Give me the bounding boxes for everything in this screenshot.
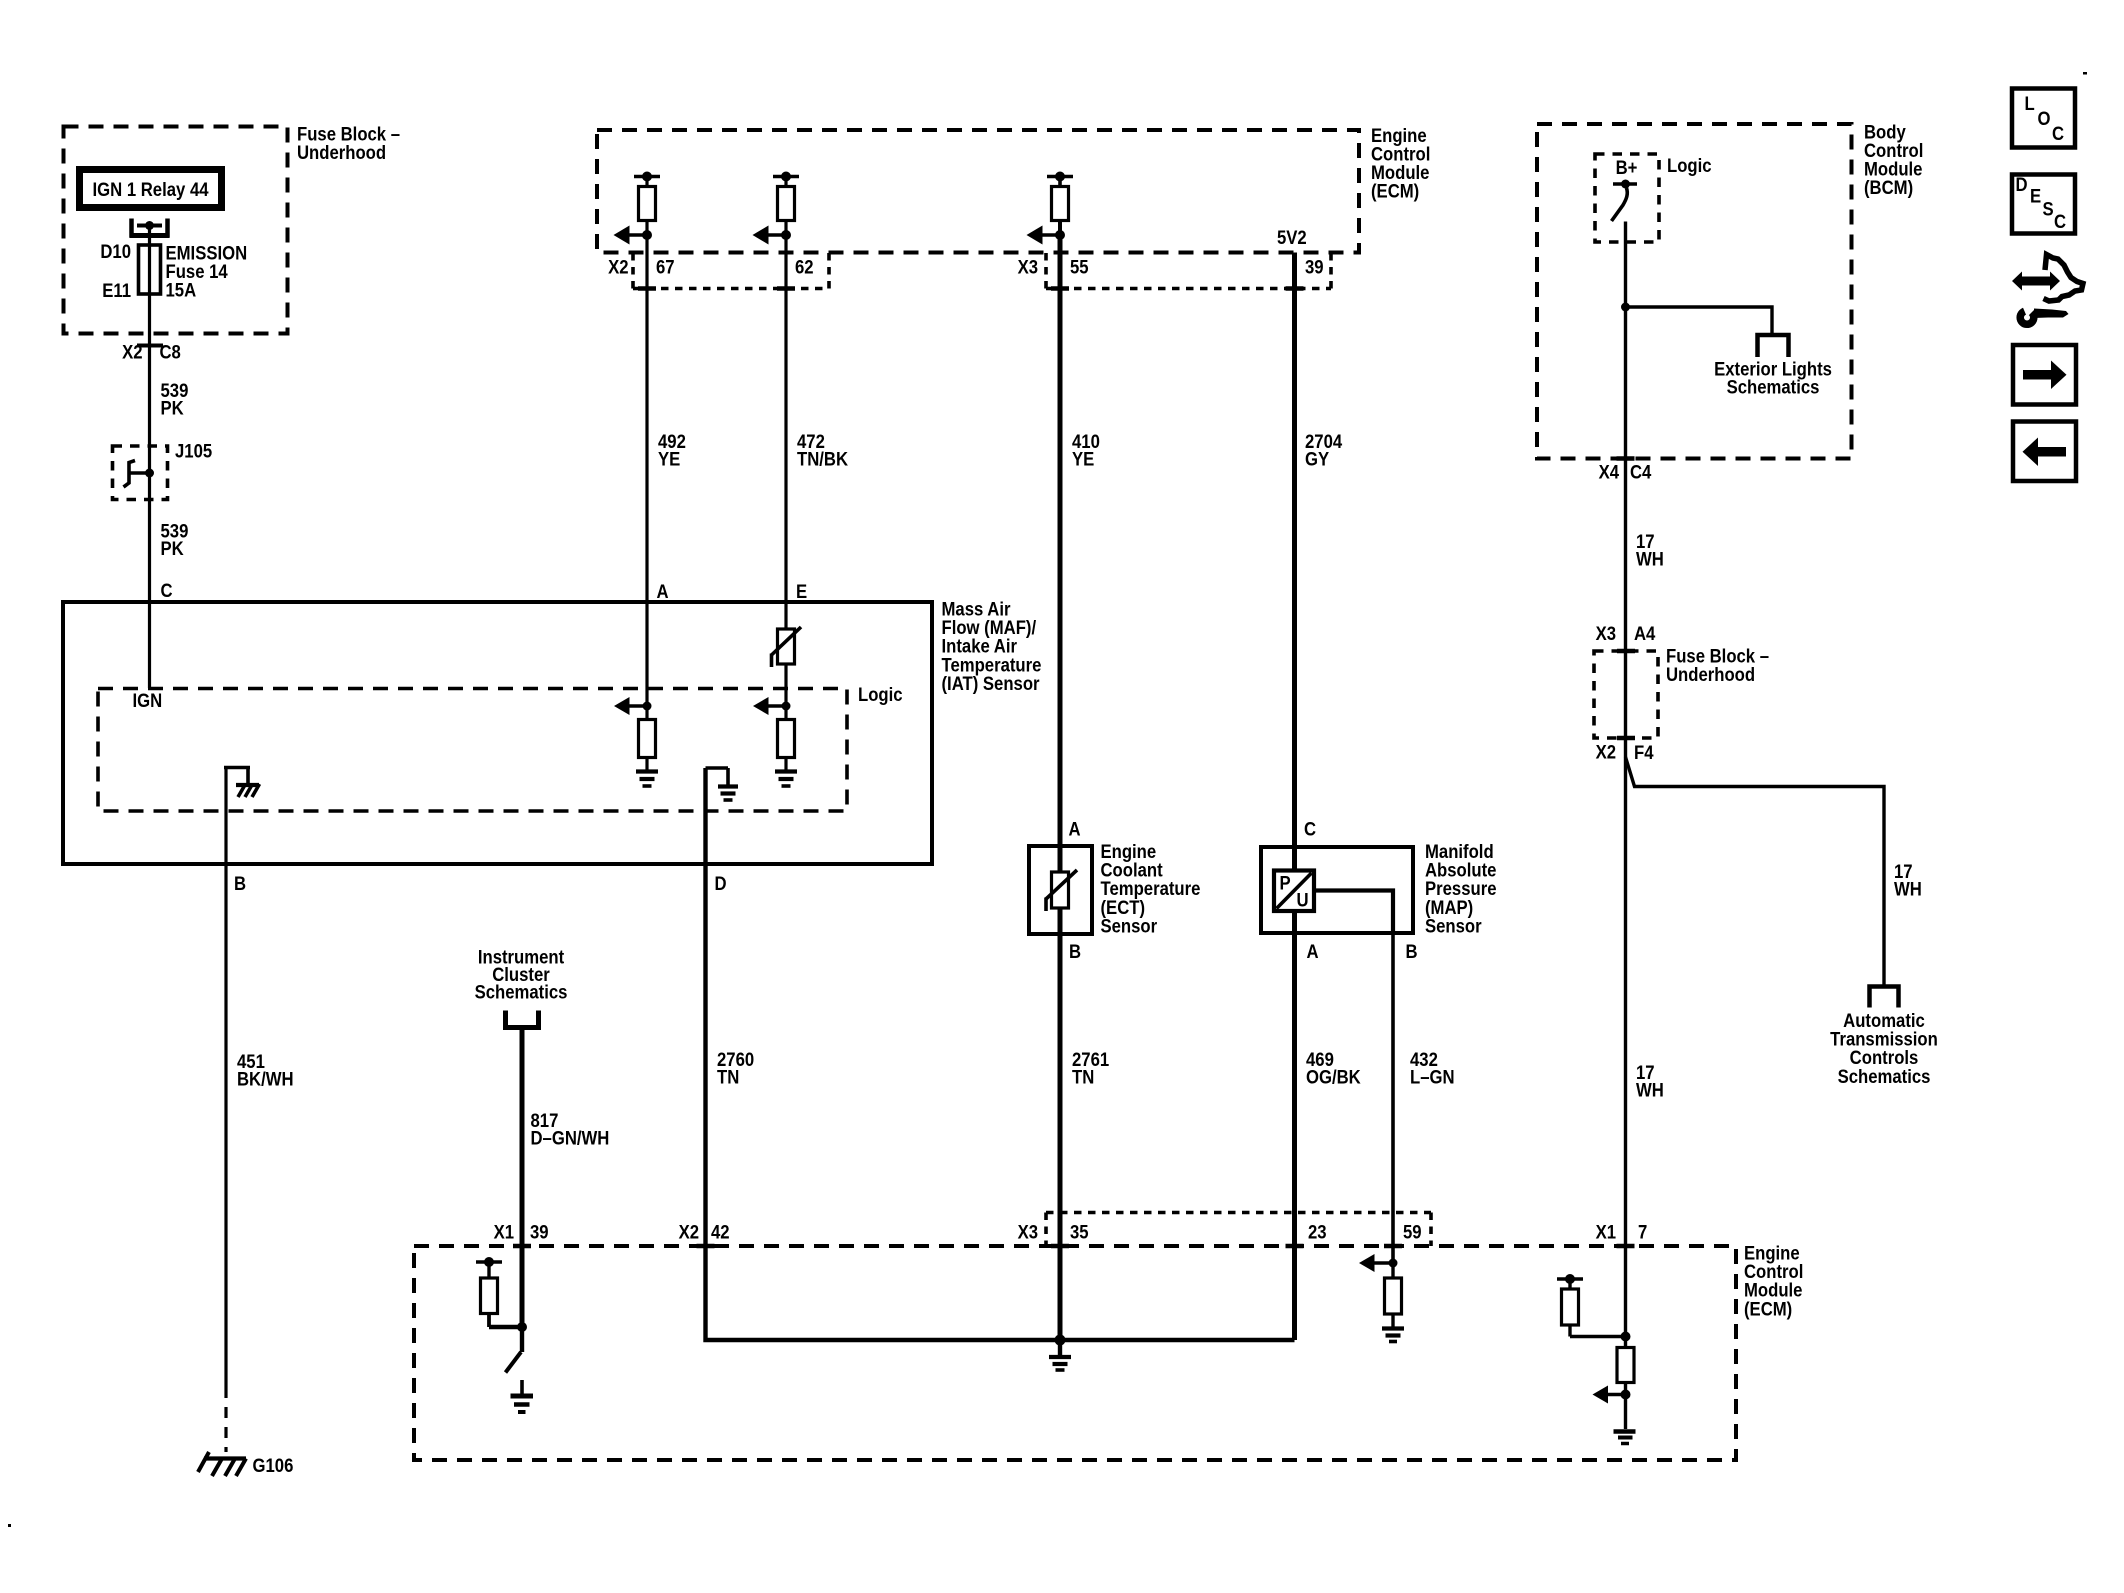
svg-text:E11: E11 — [102, 280, 131, 301]
wire 451 BK/WH solid part — [224, 768, 227, 1388]
sidebar icon vehicle/wrench — [2012, 255, 2083, 325]
label pin 39 — [1305, 257, 1324, 278]
svg-text:U: U — [1297, 890, 1309, 911]
svg-text:39: 39 — [1305, 257, 1324, 278]
label 817 D-GN/WH — [531, 1110, 610, 1149]
wire 451 BK/WH dashed tail — [224, 1387, 227, 1452]
svg-text:A4: A4 — [1634, 623, 1655, 644]
connector X3 dotted box (pins 55 39) — [1046, 253, 1331, 289]
connector ticks on wires (bottom row) — [513, 1244, 1635, 1249]
connector X2 dotted box (pins 67 62) — [633, 253, 829, 289]
label 539 PK (upper) — [161, 380, 189, 419]
label 17 WH (lower) — [1636, 1062, 1664, 1101]
label 2761 TN — [1072, 1049, 1109, 1088]
MAP P/U transducer square — [1274, 871, 1314, 912]
splice J105 dashed box — [113, 446, 168, 500]
label X2 (C8 row) — [122, 342, 142, 363]
label pin B (MAP) — [1406, 941, 1418, 962]
MAF internal Logic dashed box — [98, 689, 847, 812]
label Mass Air Flow (MAF)/ Intake Air Temperature (IAT) Sensor — [942, 599, 1042, 695]
ECM output arrow at pin 67 — [614, 226, 653, 245]
MAF logic pull-down resistor at E — [778, 720, 795, 771]
tick at fuse box top — [1617, 649, 1635, 654]
fuse block underhood (right) small dashed box — [1594, 651, 1658, 738]
forward arrow — [2023, 361, 2067, 390]
svg-text:67: 67 — [656, 257, 675, 278]
svg-text:B+: B+ — [1616, 157, 1638, 178]
svg-text:C: C — [1304, 819, 1316, 840]
label pin 62 — [795, 257, 814, 278]
wire 817 D-GN/WH — [520, 1028, 525, 1328]
svg-text:C8: C8 — [160, 342, 181, 363]
label IGN — [133, 690, 163, 711]
label 410 YE — [1072, 431, 1100, 470]
wire 17 WH main vertical (BCM to ECM X1-7) — [1624, 222, 1627, 1430]
wire branch to automatic transmission (17 WH) — [1626, 757, 1885, 987]
label pin A (MAF) — [657, 581, 669, 602]
label X2 (top connector) — [608, 257, 628, 278]
ground (A branch) — [636, 772, 658, 787]
ECM internal series resistor at pin 7 — [1617, 1348, 1634, 1383]
label pin 35 — [1070, 1222, 1089, 1243]
wire relay to fuse to MAF pin C (539 PK) — [148, 226, 151, 689]
svg-text:E: E — [796, 581, 807, 602]
svg-text:L: L — [2025, 93, 2035, 114]
fuse block underhood (top-left) dashed box — [64, 127, 288, 334]
svg-text:A: A — [1307, 941, 1319, 962]
ECM output arrow below pin 7 resistor — [1593, 1386, 1631, 1404]
svg-text:S: S — [2043, 199, 2054, 220]
svg-text:C: C — [161, 580, 173, 601]
label Fuse Block - Underhood — [297, 124, 400, 164]
label L O C — [2025, 93, 2065, 144]
tick at fuse box bottom — [1617, 736, 1635, 741]
ECM (bottom) dashed box — [414, 1246, 1736, 1460]
label pin B (ECT) — [1069, 941, 1081, 962]
label pin 39 (bottom) — [530, 1222, 549, 1243]
label Body Control Module (BCM) — [1864, 121, 1923, 198]
wire E inside MAF (thermistor to logic) — [784, 664, 787, 720]
junction dot 817/resistor — [517, 1322, 527, 1332]
label pin C (MAP) — [1304, 819, 1316, 840]
svg-text:G106: G106 — [253, 1455, 294, 1476]
label 472 TN/BK — [797, 431, 848, 470]
ECM internal resistor at pin 55 — [1047, 172, 1073, 236]
svg-text:J105: J105 — [175, 441, 212, 462]
svg-text:Fuse Block –Underhood: Fuse Block –Underhood — [297, 124, 400, 164]
svg-text:X3: X3 — [1018, 1222, 1038, 1243]
IAT thermistor symbol — [772, 627, 802, 667]
wire 492 YE (ECM 67 to MAF A) — [645, 235, 648, 602]
junction dot 2760/2761/469 common — [1055, 1335, 1066, 1346]
label Exterior Lights Schematics — [1714, 359, 1832, 398]
svg-text:Logic: Logic — [858, 684, 903, 705]
svg-text:5V2: 5V2 — [1277, 227, 1307, 248]
label 432 L-GN — [1410, 1049, 1455, 1088]
svg-text:E: E — [2030, 186, 2041, 207]
ECM internal resistor at pin 62 — [773, 172, 799, 236]
svg-text:X1: X1 — [494, 1222, 514, 1243]
wire 2761 TN (ECT B to ECM 35) — [1058, 908, 1063, 1340]
label pin 42 — [711, 1222, 730, 1243]
ARTMARK1 — [2083, 72, 2087, 75]
ECM output arrow at pin 62 — [753, 226, 792, 245]
label pin A (ECT) — [1069, 819, 1081, 840]
connector X2 C8 tick — [137, 344, 163, 348]
MAF logic pull-down resistor at A — [639, 602, 656, 770]
connector X3 dotted box (bottom row) — [1046, 1213, 1431, 1247]
ground below 59 resistor — [1382, 1329, 1404, 1342]
label Fuse Block - Underhood (right) — [1666, 646, 1769, 686]
label 2704 GY — [1305, 431, 1342, 470]
svg-text:X1: X1 — [1596, 1222, 1616, 1243]
svg-text:55: 55 — [1070, 257, 1089, 278]
fuse F14 EMISSION 15A — [139, 245, 161, 294]
wire 432 L-GN (MAP B to ECM 59) — [1391, 933, 1395, 1263]
svg-text:A: A — [1069, 819, 1081, 840]
svg-text:B: B — [1406, 941, 1418, 962]
label pin B (MAF) — [234, 873, 246, 894]
label P — [1280, 873, 1291, 894]
label X1 (pin 39 row) — [494, 1222, 514, 1243]
label Engine Control Module (ECM) bottom — [1744, 1243, 1803, 1320]
svg-text:P: P — [1280, 873, 1291, 894]
label pin 55 — [1070, 257, 1089, 278]
MAF logic arrow at A — [614, 697, 652, 715]
sidebar icon LOC box — [2012, 89, 2075, 148]
ECM internal pull-up resistor at pin 7 — [1557, 1274, 1626, 1337]
label C8 — [160, 342, 181, 363]
label 2760 TN — [717, 1049, 754, 1088]
wire 410 YE (ECM 55 to ECT A) — [1058, 235, 1063, 872]
svg-text:Exterior LightsSchematics: Exterior LightsSchematics — [1714, 359, 1832, 398]
label pin 67 — [656, 257, 675, 278]
label Engine Control Module (ECM) top — [1371, 125, 1430, 202]
svg-text:D: D — [2016, 174, 2028, 195]
svg-text:42: 42 — [711, 1222, 730, 1243]
label pin D (MAF) — [715, 873, 727, 894]
svg-text:C4: C4 — [1630, 462, 1651, 483]
label X2 (pin 42 row) — [679, 1222, 699, 1243]
ECM output arrow at pin 55 — [1027, 226, 1066, 245]
svg-text:X4: X4 — [1599, 462, 1619, 483]
ground G106 chassis symbol — [198, 1452, 246, 1476]
svg-text:IGN: IGN — [133, 690, 163, 711]
label J105 — [175, 441, 212, 462]
ECM internal pull-up resistor at pin 39 (817) — [476, 1257, 522, 1327]
splice J105 hook symbol — [124, 461, 155, 488]
BCM Logic dashed box — [1595, 154, 1659, 242]
label 492 YE — [658, 431, 686, 470]
svg-text:59: 59 — [1403, 1222, 1422, 1243]
wire MAP A (469 continuation inside box) — [1292, 908, 1297, 1340]
ECT thermistor symbol — [1046, 870, 1077, 911]
svg-text:IGN 1 Relay 44: IGN 1 Relay 44 — [92, 179, 208, 200]
sidebar icon forward-arrow box — [2013, 345, 2076, 405]
label pin C — [161, 580, 173, 601]
label Logic (MAF) — [858, 684, 903, 705]
ECM input arrow at pin 59 — [1359, 1254, 1398, 1272]
label IGN 1 Relay 44 — [92, 179, 208, 200]
label pin 23 — [1308, 1222, 1327, 1243]
label X4 — [1599, 462, 1619, 483]
MAF/IAT sensor solid box — [63, 602, 932, 864]
label E11 — [102, 280, 131, 301]
ground below pin 7 circuit — [1614, 1432, 1636, 1444]
ground (E branch) — [775, 772, 797, 787]
svg-text:B: B — [1069, 941, 1081, 962]
ground below 817 switch — [511, 1380, 534, 1412]
svg-text:C: C — [2054, 211, 2066, 232]
svg-text:C: C — [2052, 123, 2064, 144]
label X3 (top connector) — [1018, 257, 1038, 278]
label 17 WH (branch) — [1894, 861, 1922, 900]
ECM (top) dashed box — [597, 130, 1359, 253]
label Logic (BCM) — [1667, 155, 1712, 176]
label D E S C — [2016, 174, 2067, 232]
svg-text:62: 62 — [795, 257, 814, 278]
label X3 (bottom connector) — [1018, 1222, 1038, 1243]
MAF pin B internal chassis-ground structure — [224, 768, 260, 798]
label pin 59 — [1403, 1222, 1422, 1243]
svg-text:D10: D10 — [100, 241, 131, 262]
junction dot at pin 7 wire — [1621, 1332, 1631, 1342]
wire branch to Exterior Lights — [1626, 307, 1773, 335]
svg-text:X2: X2 — [608, 257, 628, 278]
svg-text:O: O — [2038, 108, 2051, 129]
wire 2760 TN (MAF D to ECM 42) with corner to ground bus — [706, 768, 1295, 1340]
MAP sensor box — [1261, 847, 1413, 933]
label 5V2 — [1277, 227, 1307, 248]
svg-text:X2: X2 — [122, 342, 142, 363]
relay K44 "IGN 1 Relay 44" box — [80, 170, 222, 208]
label U — [1297, 890, 1309, 911]
relay contact symbol — [130, 219, 170, 238]
MAF logic arrow at E — [753, 697, 791, 715]
ground below sensor-common junction — [1049, 1340, 1071, 1370]
ECT sensor box — [1029, 846, 1092, 934]
off-page connector bracket (instrument cluster) — [506, 1011, 539, 1028]
label 451 BK/WH — [237, 1051, 294, 1090]
label C4 — [1630, 462, 1651, 483]
label 469 OG/BK — [1306, 1049, 1361, 1088]
svg-text:23: 23 — [1308, 1222, 1327, 1243]
svg-text:35: 35 — [1070, 1222, 1089, 1243]
label Instrument Cluster Schematics — [475, 947, 568, 1003]
junction dot (BCM internal branch) — [1621, 303, 1630, 312]
sidebar icon DESC box — [2012, 175, 2075, 234]
switch blade to ground (817) — [506, 1327, 523, 1373]
connector tick X4/C4 — [1617, 456, 1635, 461]
svg-text:A: A — [657, 581, 669, 602]
label pin E (MAF) — [796, 581, 807, 602]
svg-text:F4: F4 — [1634, 742, 1654, 763]
B+ switch symbol — [1612, 180, 1638, 222]
label B+ — [1616, 157, 1638, 178]
connector ticks on wires (top row) — [638, 286, 1304, 291]
label D10 — [100, 241, 131, 262]
svg-text:7: 7 — [1638, 1222, 1647, 1243]
svg-text:X3: X3 — [1018, 257, 1038, 278]
ECM internal resistor below pin 59 — [1385, 1263, 1402, 1327]
svg-text:39: 39 — [530, 1222, 549, 1243]
off-page connector bracket (exterior lights) — [1758, 335, 1789, 357]
wire 2704 GY (ECM 39 to MAP C) — [1292, 253, 1297, 871]
label pin A (MAP) — [1307, 941, 1319, 962]
label Engine Coolant Temperature (ECT) Sensor — [1101, 841, 1201, 937]
label 17 WH (upper) — [1636, 531, 1664, 570]
label A4 — [1634, 623, 1655, 644]
BCM dashed box — [1537, 124, 1852, 459]
label pin 7 — [1638, 1222, 1647, 1243]
back arrow — [2023, 438, 2067, 467]
label X3 (fuse block) — [1596, 623, 1616, 644]
label X2 (F4 row) — [1596, 742, 1616, 763]
label 539 PK (lower) — [161, 521, 189, 560]
label X1 (pin 7 row) — [1596, 1222, 1616, 1243]
label G106 — [253, 1455, 294, 1476]
MAF pin D internal ground structure — [706, 768, 739, 800]
label Manifold Absolute Pressure (MAP) Sensor — [1425, 841, 1497, 937]
svg-text:Fuse Block –Underhood: Fuse Block –Underhood — [1666, 646, 1769, 686]
label F4 — [1634, 742, 1654, 763]
wire P/U to MAP pin B — [1314, 891, 1393, 934]
ECM internal resistor at pin 67 — [634, 172, 660, 236]
svg-text:D: D — [715, 873, 727, 894]
svg-text:X2: X2 — [1596, 742, 1616, 763]
svg-text:Logic: Logic — [1667, 155, 1712, 176]
svg-text:X3: X3 — [1596, 623, 1616, 644]
svg-text:B: B — [234, 873, 246, 894]
sidebar icon back-arrow box — [2013, 422, 2076, 482]
ARTMARK2 — [8, 1524, 11, 1527]
label EMISSION Fuse 14 15A — [166, 243, 248, 301]
svg-text:AutomaticTransmissionControlsS: AutomaticTransmissionControlsSchematics — [1830, 1010, 1938, 1087]
svg-text:X2: X2 — [679, 1222, 699, 1243]
off-page connector bracket (automatic transmission) — [1870, 987, 1899, 1008]
wire 472 TN/BK (ECM 62 to MAF E) — [784, 235, 787, 629]
label Automatic Transmission Controls Schematics — [1830, 1010, 1938, 1087]
